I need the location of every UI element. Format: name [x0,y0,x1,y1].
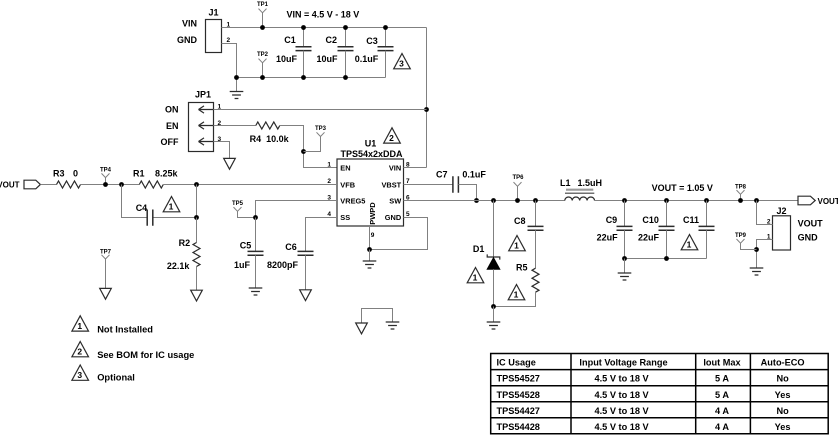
svg-text:Iout Max: Iout Max [703,358,741,368]
note triangle 1 (C4) [163,197,180,212]
node TP9 junction [754,247,759,252]
svg-text:9: 9 [371,232,375,239]
svg-text:TP4: TP4 [100,167,112,173]
svg-text:TPS54527: TPS54527 [497,374,540,384]
legend note triangle 1 [72,316,153,335]
svg-text:2: 2 [77,347,82,357]
svg-text:No: No [776,406,789,416]
test point TP4 [100,167,112,187]
capacitor C8 [514,201,544,269]
wire output cap bottom rail [625,258,707,260]
ground under C5 [249,288,263,295]
svg-text:Yes: Yes [775,422,791,432]
svg-text:C8: C8 [514,216,526,226]
test point TP5 [232,201,258,220]
wire JP1 pin1 (ON) to VIN vertical [214,109,427,111]
wire R1 to U1 VFB [163,184,337,186]
svg-text:No: No [776,374,789,384]
svg-text:R2: R2 [179,238,191,248]
test point TP1 [257,2,269,30]
svg-text:VBST: VBST [381,180,401,189]
svg-text:3: 3 [399,59,404,69]
svg-text:SW: SW [389,197,401,206]
node junction J1 gnd [234,75,239,80]
svg-text:TP3: TP3 [315,126,327,132]
svg-text:4.5 V to 18 V: 4.5 V to 18 V [595,422,650,432]
svg-text:C10: C10 [642,215,659,225]
wire U1 GND pin5 to PWPD node [370,218,428,250]
resistor R3 [53,169,81,189]
test point TP8 [735,184,747,203]
ground (open) at JP1 pin3 [224,158,236,169]
svg-text:L1: L1 [560,178,571,188]
svg-text:5 A: 5 A [715,374,729,384]
wire J1 pin1 to VIN rail [222,27,427,29]
test point TP3 [304,126,327,152]
svg-text:5: 5 [406,211,410,218]
svg-text:TPS54427: TPS54427 [497,406,540,416]
svg-text:1: 1 [473,273,478,283]
svg-text:TPS54528: TPS54528 [497,390,540,400]
svg-text:TP7: TP7 [100,249,112,255]
wire R3 to R1 [81,184,140,186]
capacitor C7 [436,170,486,193]
svg-text:TP1: TP1 [257,2,269,8]
wire JP1 pin3 (OFF) to ground [214,142,230,159]
svg-text:TP8: TP8 [735,184,747,190]
resistor R2 [167,218,200,291]
wire L1 to output port [595,200,799,202]
svg-text:Input Voltage Range: Input Voltage Range [579,358,667,368]
svg-text:VIN: VIN [389,164,401,173]
note triangle 1 (C11) [681,235,698,250]
svg-text:TP6: TP6 [512,175,524,181]
svg-text:ON: ON [165,105,179,115]
ground (open) under TP7 [100,288,112,299]
svg-text:VOUT: VOUT [818,197,838,206]
node C10 gnd [664,256,669,261]
svg-text:C6: C6 [285,242,297,252]
test point TP2 [257,52,269,80]
capacitor C2 [316,25,353,80]
svg-text:C11: C11 [683,215,699,225]
wire J1 pin2 down to cap bottom rail [222,44,237,78]
svg-text:3: 3 [77,370,82,380]
node VIN/ON junction [424,107,429,112]
svg-text:C3: C3 [366,36,378,46]
wire U1 VIN pin8 stub [404,167,427,169]
svg-text:0: 0 [73,169,78,179]
port VOUT (feedback input, left) [0,180,40,189]
svg-text:VOUT: VOUT [798,219,824,229]
svg-text:C9: C9 [606,215,618,225]
svg-text:C5: C5 [240,240,252,250]
connector J1 [177,8,231,53]
svg-text:1: 1 [77,321,82,331]
svg-text:4: 4 [327,211,331,218]
capacitor C9 [597,198,633,258]
ground under J1 pin2 [236,78,238,92]
svg-text:See BOM for IC usage: See BOM for IC usage [97,350,194,360]
capacitor C3 [355,25,394,77]
ground (earth) net-tie [386,322,400,329]
capacitor C5 [234,218,264,289]
node C9 gnd [622,256,627,261]
svg-text:8200pF: 8200pF [267,260,299,270]
svg-text:1: 1 [514,290,519,300]
node TP3 junction [301,149,306,154]
svg-text:8.25k: 8.25k [155,169,179,179]
connector J2 [767,206,823,250]
capacitor C4 [136,203,153,226]
svg-text:0.1uF: 0.1uF [462,170,486,180]
note triangle 1 (R5) [508,285,525,300]
svg-text:EN: EN [340,164,350,173]
svg-text:1: 1 [169,202,174,212]
svg-text:1uF: 1uF [234,260,251,270]
svg-text:TP9: TP9 [735,233,747,239]
svg-text:J2: J2 [776,206,786,216]
svg-text:C2: C2 [326,35,338,45]
svg-text:C4: C4 [136,203,148,213]
ground under C9 [624,259,626,274]
capacitor C10 [638,198,675,258]
svg-text:PWPD: PWPD [368,202,377,225]
resistor R1 [133,169,179,189]
svg-text:22uF: 22uF [638,232,660,242]
svg-text:VFB: VFB [340,180,355,189]
svg-text:Yes: Yes [775,390,791,400]
resistor R5 [494,263,540,307]
svg-text:5 A: 5 A [715,390,729,400]
inductor L1 [560,178,602,201]
capacitor C6 [267,242,314,290]
svg-text:VIN: VIN [182,19,197,29]
svg-text:R5: R5 [516,263,528,273]
header JP1 [161,90,222,152]
svg-text:VOUT = 1.05 V: VOUT = 1.05 V [652,183,713,193]
net-tie bridge wire [362,309,393,324]
svg-text:TP2: TP2 [257,52,269,58]
svg-text:VIN = 4.5 V - 18 V: VIN = 4.5 V - 18 V [287,10,360,20]
svg-text:R3: R3 [53,169,65,179]
node C4 branch [119,182,124,187]
wire U1 VREG5 to C5 [256,201,338,218]
wire J2 pin1 to ground [757,240,773,269]
IC U1 TPS54x2xDDA [327,139,410,240]
capacitor C11 [683,198,715,258]
svg-text:22.1k: 22.1k [167,261,191,271]
svg-text:10uF: 10uF [316,54,338,64]
svg-text:D1: D1 [473,244,485,254]
node SW/C8 [533,198,538,203]
svg-text:4.5 V to 18 V: 4.5 V to 18 V [595,390,650,400]
svg-text:IC Usage: IC Usage [497,358,536,368]
wire JP1 pin2 to R4 [214,125,256,127]
diode D1 (schottky) [473,201,500,307]
wire R4 to U1 EN [280,126,337,168]
wire U1 SS to C6 [306,218,338,252]
svg-text:OFF: OFF [161,137,179,147]
node D1/R5 bottom junction [491,304,496,309]
svg-text:JP1: JP1 [195,90,211,100]
node C4/R2 junction [194,215,199,220]
svg-text:4 A: 4 A [715,406,729,416]
node J2 branch [754,198,759,203]
wire PWPD pin9 stub [369,226,371,250]
svg-text:4 A: 4 A [715,422,729,432]
svg-text:1: 1 [327,161,331,168]
capacitor C1 [276,25,312,80]
svg-text:R4: R4 [250,134,262,144]
node SW/D1 [491,198,496,203]
node PWPD/GND junction [367,247,372,252]
test point TP9 [735,233,757,250]
svg-text:2: 2 [327,178,331,185]
svg-text:GND: GND [177,35,198,45]
test point TP7 [100,249,112,288]
svg-text:TPS54428: TPS54428 [497,422,540,432]
svg-text:4.5 V to 18 V: 4.5 V to 18 V [595,406,650,416]
svg-text:VOUT: VOUT [0,181,20,190]
ground (open) under R2 [191,290,203,301]
svg-text:0.1uF: 0.1uF [355,54,379,64]
svg-text:C7: C7 [436,170,448,180]
note triangle 3 [394,54,411,69]
svg-text:10.0k: 10.0k [266,134,290,144]
legend note triangle 3 [72,365,135,383]
svg-text:U1: U1 [365,139,377,149]
port VOUT (output, right) [798,196,838,206]
IC usage table [491,354,829,434]
svg-text:R1: R1 [133,169,145,179]
svg-text:4.5 V to 18 V: 4.5 V to 18 V [595,374,650,384]
ground under U1 [369,250,371,262]
ground (open) net-tie [356,323,368,334]
wire U1 VBST to C7 [404,184,453,186]
svg-text:C1: C1 [284,35,296,45]
svg-text:Not Installed: Not Installed [97,325,153,335]
svg-text:SS: SS [340,213,350,222]
svg-text:1.5uH: 1.5uH [578,178,603,188]
note triangle 1 (C8) [509,236,526,251]
test point TP6 [512,175,524,203]
wire C4 branch [122,185,197,218]
ground (open) under C6 [300,290,312,301]
node R1/R2/VFB junction [194,182,199,187]
wire cap bottom rail [237,77,386,79]
node SW/C7 [474,198,479,203]
svg-text:EN: EN [166,121,179,131]
svg-text:22uF: 22uF [597,232,619,242]
svg-text:2: 2 [389,133,394,143]
svg-text:Optional: Optional [97,373,135,383]
svg-text:1: 1 [514,241,519,251]
wire VOUT to J2 pin2 [757,201,773,225]
ground under J2 [750,268,764,275]
svg-text:1: 1 [687,240,692,250]
resistor R4 [250,122,290,144]
svg-text:Auto-ECO: Auto-ECO [761,358,805,368]
svg-text:10uF: 10uF [276,54,298,64]
svg-text:TPS54x2xDDA: TPS54x2xDDA [340,149,403,159]
wire C7 to SW node [458,185,476,201]
svg-text:J1: J1 [208,8,218,18]
svg-text:TP5: TP5 [232,201,244,207]
wire VIN vertical [426,28,428,168]
note triangle 2 [384,128,401,143]
svg-text:7: 7 [406,178,410,185]
svg-text:VREG5: VREG5 [340,197,365,206]
wire U1 SW to L1 [404,200,565,202]
svg-text:GND: GND [798,233,819,243]
wire port to R3 [40,184,56,186]
ground under D1 [493,307,495,323]
legend note triangle 2 [72,342,194,361]
svg-text:GND: GND [385,213,402,222]
note triangle 1 (D1) [467,268,484,283]
